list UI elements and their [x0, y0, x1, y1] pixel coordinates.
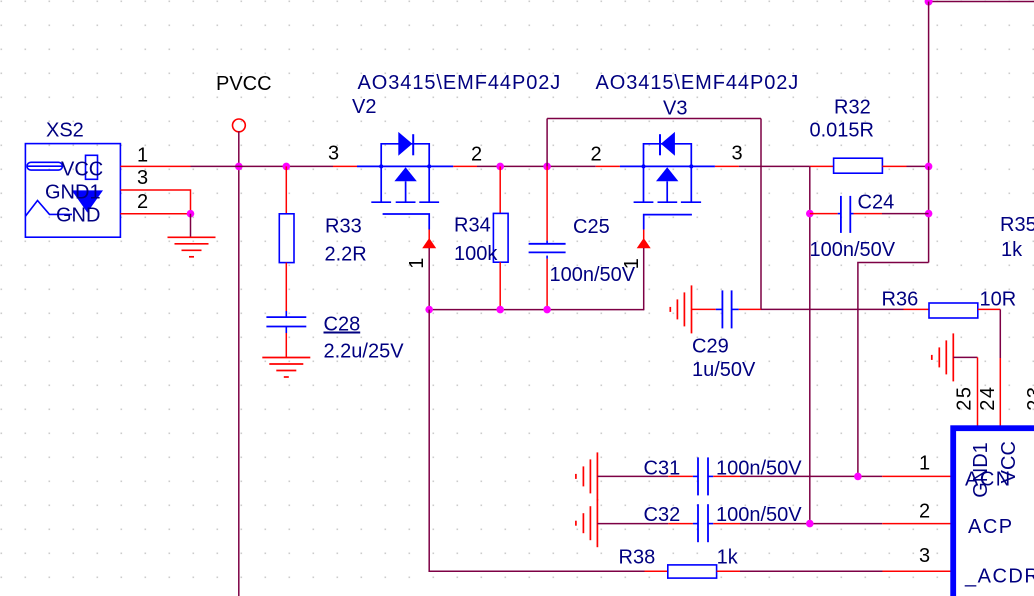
- svg-text:GND: GND: [56, 205, 100, 227]
- wire V3 loop top: [547, 118, 761, 120]
- resistor R34 lead bottom: [499, 262, 501, 309]
- V2 source/drain frame: [357, 134, 453, 229]
- wire right vertical to pin1 column: [858, 263, 929, 477]
- connector XS2 body: [25, 144, 120, 238]
- wire right vertical (main to C24 row): [928, 166, 930, 262]
- junction lower net at R34: [496, 306, 504, 314]
- capacitor C31 stub left: [693, 475, 698, 477]
- svg-text:100k: 100k: [454, 243, 498, 265]
- svg-text:1k: 1k: [1001, 239, 1023, 261]
- svg-text:10R: 10R: [980, 288, 1017, 310]
- junction lower net at V2 gate: [425, 306, 433, 314]
- svg-text:2: 2: [137, 191, 148, 213]
- capacitor C24 plates: [840, 196, 842, 233]
- V3 gate pin arrow: [637, 238, 651, 248]
- wire ground to C31: [597, 475, 668, 477]
- V3 source/drain frame: [620, 134, 715, 229]
- capacitor C24 stub left: [838, 213, 841, 215]
- capacitor C32 lead left: [668, 523, 693, 525]
- wire R38 to IC pin 3: [740, 570, 885, 572]
- svg-text:1: 1: [919, 452, 930, 474]
- wire R36 to IC pin 24: [999, 309, 1001, 358]
- junction R33 top: [283, 163, 291, 171]
- svg-text:R36: R36: [882, 288, 919, 310]
- svg-text:25: 25: [953, 385, 975, 410]
- svg-text:24: 24: [977, 385, 999, 410]
- V3 bulk connection vertical: [666, 181, 668, 201]
- wire V2 pin3 stub: [333, 165, 357, 167]
- resistor R34 lead top: [499, 166, 501, 213]
- svg-text:C24: C24: [858, 192, 895, 214]
- resistor R38 lead left: [645, 570, 668, 572]
- connector XS2 plug triangle: [72, 190, 103, 212]
- capacitor C29 lead right: [739, 308, 761, 310]
- IC pin 1 red segment: [882, 475, 950, 477]
- V3 bulk arrow triangle: [656, 167, 678, 181]
- junction top-right: [925, 0, 933, 6]
- resistor R38 body: [668, 565, 717, 578]
- capacitor C28 plates: [266, 316, 306, 318]
- capacitor C24 lead right: [854, 213, 883, 215]
- wire V3 gate down: [643, 248, 645, 310]
- svg-text:R35: R35: [1000, 214, 1034, 236]
- svg-text:1u/50V: 1u/50V: [692, 359, 756, 381]
- capacitor C31 lead left: [668, 475, 693, 477]
- svg-text:GND1: GND1: [45, 182, 101, 204]
- junction R34 top: [496, 163, 504, 171]
- V2 gate bar: [383, 214, 430, 230]
- svg-text:1: 1: [137, 145, 148, 167]
- svg-text:1k: 1k: [717, 546, 739, 568]
- capacitor C25 lead bottom: [546, 256, 548, 259]
- svg-text:R38: R38: [619, 546, 656, 568]
- ground symbol at C29 (rotated): [670, 285, 691, 333]
- V3 gate pin red segment: [643, 230, 645, 240]
- junction pin1 column: [854, 473, 862, 481]
- resistor R38 lead right: [717, 570, 740, 572]
- svg-text:V2: V2: [352, 96, 376, 118]
- wire PVCC vertical: [238, 131, 240, 596]
- capacitor C32 plates: [697, 504, 699, 542]
- wire V2 gate net down to R38 row: [429, 310, 644, 572]
- wire V3.3 to R32: [739, 165, 810, 167]
- resistor R33 lead top: [285, 166, 287, 213]
- V3 channel bar segments: [634, 201, 654, 203]
- resistor R32 body: [834, 158, 883, 173]
- svg-text:2: 2: [591, 144, 602, 166]
- capacitor C31 plates: [697, 457, 699, 495]
- wire C31 to junction: [740, 475, 882, 477]
- resistor R32 lead left: [810, 165, 834, 167]
- V3 main pin line: [620, 165, 715, 167]
- wire V2 gate down: [428, 248, 430, 310]
- svg-text:100n/50V: 100n/50V: [716, 458, 802, 480]
- XS2 pin 3 wire: [120, 190, 190, 214]
- wire V3 loop left vertical: [546, 119, 548, 167]
- V2 body diode triangle: [398, 132, 412, 156]
- svg-text:ACN: ACN: [965, 468, 1012, 490]
- svg-text:AO3415\EMF44P02J: AO3415\EMF44P02J: [358, 72, 562, 94]
- svg-text:ACP: ACP: [968, 516, 1014, 538]
- wire V3 pin3 stub: [715, 165, 739, 167]
- capacitor C29 lead left: [692, 308, 716, 310]
- wire C29 to R36: [761, 308, 904, 310]
- svg-text:C31: C31: [644, 458, 681, 480]
- wire to ground below XS2: [190, 214, 192, 238]
- svg-text:C25: C25: [573, 216, 610, 238]
- resistor R36 lead right: [978, 308, 1001, 310]
- svg-text:0.015R: 0.015R: [810, 119, 875, 141]
- ground symbol near IC pin 25 (rotated): [932, 333, 954, 381]
- svg-text:100n/50V: 100n/50V: [810, 239, 896, 261]
- V2 gate pin red segment: [428, 230, 430, 240]
- junction main/right vertical: [925, 163, 933, 171]
- junction C24 left: [806, 210, 814, 218]
- capacitor C24 lead left: [810, 213, 838, 215]
- resistor R36 lead left: [904, 308, 930, 310]
- svg-text:C29: C29: [692, 336, 729, 358]
- capacitor C32 lead right: [713, 523, 740, 525]
- V2 bulk arrow triangle: [394, 167, 416, 181]
- svg-text:2.2R: 2.2R: [325, 243, 367, 265]
- transistor V3 (AO3415 P-MOSFET, mirrored): [596, 72, 800, 310]
- svg-text:C28: C28: [324, 314, 361, 336]
- svg-text:PVCC: PVCC: [216, 73, 272, 95]
- svg-text:1: 1: [621, 258, 643, 269]
- capacitor C25 plates: [529, 243, 566, 245]
- svg-text:_ACDRV: _ACDRV: [964, 566, 1034, 588]
- wire main net (XS2.1 to V2.3): [191, 165, 334, 167]
- capacitor C25 stub top: [546, 241, 548, 244]
- wire C28 to ground: [285, 333, 287, 358]
- wire lower net (V2 gate to V3 gate): [429, 309, 644, 311]
- wire C24 right to junction: [882, 213, 929, 215]
- capacitor C29 stub right: [732, 308, 739, 310]
- V3 body diode triangle: [661, 132, 675, 156]
- transistor V2 (AO3415 P-MOSFET): [352, 72, 561, 310]
- capacitor C31 lead right: [713, 475, 740, 477]
- junction pin2 column: [806, 520, 814, 528]
- V2 channel bar segments: [371, 201, 391, 203]
- wire top-right horizontal: [929, 1, 1034, 3]
- XS2 pin 1 wire: [120, 165, 190, 167]
- capacitor C24 stub right: [850, 213, 853, 215]
- wire C24 left vertical: [809, 166, 811, 523]
- svg-text:2.2u/25V: 2.2u/25V: [324, 341, 405, 363]
- ground symbol below XS2: [168, 237, 216, 256]
- resistor R36 body: [929, 303, 978, 318]
- IC pin 2 red segment: [882, 523, 950, 525]
- capacitor C32 stub right: [708, 523, 713, 525]
- capacitor C32 stub left: [693, 523, 698, 525]
- V2 pin junction dots: [379, 164, 383, 168]
- svg-text:R33: R33: [325, 215, 362, 237]
- svg-text:2: 2: [471, 144, 482, 166]
- junction C25 top: [543, 163, 551, 171]
- svg-text:3: 3: [137, 167, 148, 189]
- V3 gate bar: [644, 215, 692, 230]
- capacitor C31 stub right: [708, 475, 713, 477]
- wire C32 to junction: [740, 523, 882, 525]
- capacitor C29 plates: [721, 290, 723, 328]
- ground symbol below C28: [262, 358, 310, 378]
- V2 bulk connection vertical: [405, 181, 407, 201]
- ground symbol at C31 (rotated): [576, 452, 598, 500]
- wire ground to IC pin 25: [953, 356, 977, 358]
- wire V2 pin2 stub: [453, 165, 477, 167]
- svg-text:1: 1: [406, 258, 428, 269]
- V2 gate pin arrow: [422, 238, 436, 248]
- capacitor C28 stub bottom: [285, 327, 287, 334]
- resistor R32 lead right: [882, 165, 906, 167]
- ground symbol at C32 (rotated): [576, 499, 598, 547]
- wire V2.2 to V3.2: [477, 165, 596, 167]
- XS2 pin 2 wire: [120, 213, 190, 215]
- IC pin 25 red segment: [977, 357, 979, 430]
- wire ground to C32: [597, 523, 668, 525]
- junction lower net at C25: [543, 306, 551, 314]
- capacitor C28 stub top: [285, 311, 287, 317]
- junction at XS2 pin2/pin3: [187, 210, 195, 218]
- resistor R33 body: [279, 214, 294, 263]
- svg-text:R32: R32: [834, 97, 871, 119]
- IC pin 24 red segment: [999, 358, 1001, 430]
- wire right vertical (top to main): [928, 2, 930, 167]
- svg-text:3: 3: [919, 545, 930, 567]
- capacitor C29 stub left: [716, 308, 723, 310]
- junction C24 right: [925, 210, 933, 218]
- junction PVCC / main wire: [235, 163, 243, 171]
- svg-text:100n/50V: 100n/50V: [716, 504, 802, 526]
- wire R32 to junction: [907, 165, 929, 167]
- svg-text:3: 3: [328, 143, 339, 165]
- IC U1 body (clipped at edges): [953, 428, 1034, 596]
- V3 pin junction dots: [642, 164, 646, 168]
- svg-text:23: 23: [1024, 385, 1034, 410]
- svg-text:XS2: XS2: [46, 120, 84, 142]
- svg-text:3: 3: [732, 143, 743, 165]
- svg-text:AO3415\EMF44P02J: AO3415\EMF44P02J: [596, 72, 800, 94]
- svg-text:R34: R34: [454, 215, 491, 237]
- svg-text:2: 2: [919, 500, 930, 522]
- wire V3 pin2 stub: [596, 165, 620, 167]
- capacitor C25 lead top: [546, 166, 548, 240]
- V2 main pin line: [357, 165, 453, 167]
- svg-text:V3: V3: [663, 98, 687, 120]
- svg-text:VCC: VCC: [61, 159, 103, 181]
- V3 body diode cathode bar: [659, 134, 661, 155]
- resistor R33 lead bottom: [285, 263, 287, 311]
- resistor R34 body: [493, 213, 508, 262]
- IC pin 3 red segment: [882, 570, 950, 572]
- wire V3 loop right vertical: [760, 119, 762, 310]
- power port PVCC: [233, 119, 246, 132]
- svg-text:C32: C32: [644, 504, 681, 526]
- V2 body diode cathode bar: [412, 134, 414, 155]
